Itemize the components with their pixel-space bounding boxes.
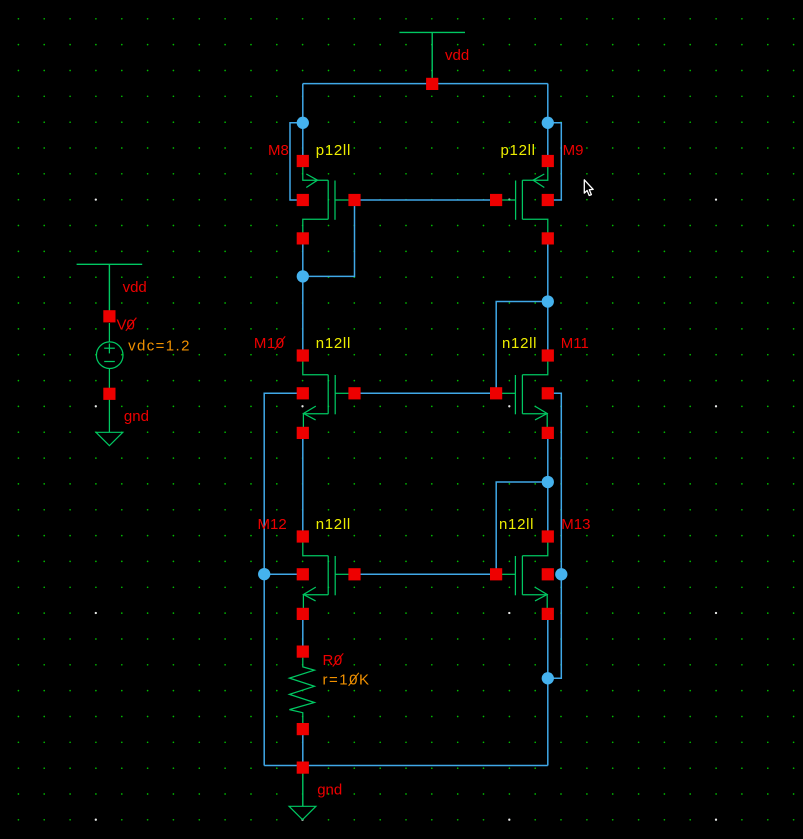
wire M9 drain to M11 drain xyxy=(547,238,549,355)
wire M12 source to R0 xyxy=(302,614,304,652)
wire M11 source to M13 drain xyxy=(547,433,549,537)
svg-text:M8: M8 xyxy=(268,142,289,159)
svg-text:M13: M13 xyxy=(561,516,590,533)
svg-text:M9: M9 xyxy=(563,142,584,159)
wire M13 source to gnd rail xyxy=(547,614,549,766)
wire M10 source to M12 drain xyxy=(302,433,304,537)
junction node M13 drain-gate tap xyxy=(542,476,554,488)
power vdd symbol (top) xyxy=(399,32,465,84)
ground symbol (bottom) xyxy=(302,768,304,807)
svg-text:n12ll: n12ll xyxy=(316,516,351,533)
wire bottom gnd rail xyxy=(264,765,548,767)
power vdd symbol (left) xyxy=(77,264,143,316)
transistor M10 (nmos n12ll) xyxy=(297,349,361,439)
wire M12 bulk stub xyxy=(264,573,298,575)
wire M9 drain to M11 gate xyxy=(496,302,548,394)
junction node M9 drain tap xyxy=(542,295,554,307)
transistor M8 (pmos p12ll) xyxy=(297,155,361,245)
svg-text:vdd: vdd xyxy=(445,47,469,64)
transistor M12 (nmos n12ll) xyxy=(297,530,361,620)
svg-text:vdc=1.2: vdc=1.2 xyxy=(128,337,191,354)
svg-text:n12ll: n12ll xyxy=(499,516,534,533)
junction node M9 source/bulk xyxy=(542,117,554,129)
svg-text:vdd: vdd xyxy=(123,279,147,296)
junction node right bulk / M13 bulk xyxy=(555,568,567,580)
mouse cursor xyxy=(584,180,593,196)
svg-text:V0: V0 xyxy=(117,316,135,333)
transistor M11 (nmos n12ll, mirrored) xyxy=(490,349,554,439)
svg-text:p12ll: p12ll xyxy=(316,142,351,159)
wire M8 bulk tie xyxy=(290,123,303,200)
svg-text:p12ll: p12ll xyxy=(501,142,536,159)
wire M12 gate to M13 gate xyxy=(355,573,497,575)
wire M8 gate to M9 gate xyxy=(355,199,497,201)
wire M9 bulk tie xyxy=(548,123,562,200)
wire R0 to gnd rail xyxy=(302,729,304,766)
svg-text:gnd: gnd xyxy=(124,408,149,425)
voltage source V0 xyxy=(96,323,123,388)
junction node M8 source/bulk xyxy=(297,117,309,129)
wire vdd top rail xyxy=(303,83,548,85)
junction node gnd net join xyxy=(542,672,554,684)
svg-text:gnd: gnd xyxy=(317,782,342,799)
ground symbol (left) xyxy=(108,400,110,433)
svg-text:r=10K: r=10K xyxy=(323,671,371,688)
svg-text:M11: M11 xyxy=(561,335,589,352)
svg-text:n12ll: n12ll xyxy=(316,335,351,352)
svg-text:R0: R0 xyxy=(323,652,343,669)
wire M10 gate to M11 gate xyxy=(355,392,497,394)
wire left bulk rail xyxy=(264,393,298,765)
wire M8 drain to M10 drain xyxy=(302,238,304,355)
wire rail to M9 source xyxy=(547,84,549,161)
transistor M9 (pmos p12ll, mirrored) xyxy=(490,155,554,245)
junction node M8 drain-gate tap xyxy=(297,270,309,282)
transistor M13 (nmos n12ll, mirrored) xyxy=(490,530,554,620)
wire M13 drain to M13 gate xyxy=(496,482,548,574)
svg-text:M12: M12 xyxy=(258,516,287,533)
svg-text:n12ll: n12ll xyxy=(502,335,537,352)
resistor R0 xyxy=(289,658,314,724)
wire M11 bulk chain xyxy=(548,393,562,678)
junction node left bulk / M12 bulk xyxy=(258,568,270,580)
wire rail to M8 source xyxy=(302,84,304,161)
wire M8 gate tie xyxy=(303,200,355,276)
